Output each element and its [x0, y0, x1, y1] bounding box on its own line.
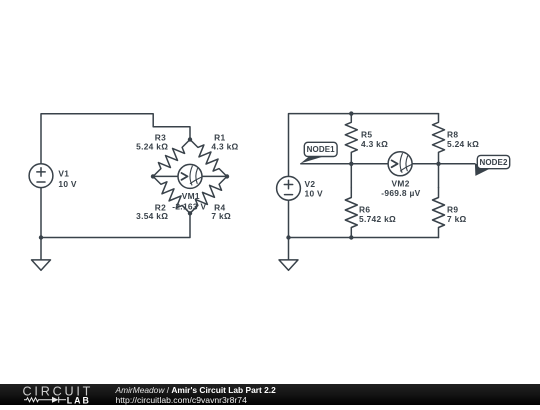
wire R6 upper lead — [350, 164, 352, 188]
resistor R3 — [149, 135, 194, 180]
logo resistor+diode doodle — [24, 397, 66, 403]
junction mid R5/R6 — [349, 162, 353, 166]
wire bottom of bridge to ground node — [41, 213, 190, 237]
wire V1 top to bridge top vertex — [41, 114, 190, 164]
wire VM1 left — [153, 175, 178, 177]
resistor R6 — [345, 188, 357, 238]
voltmeter U VM2 — [388, 152, 412, 176]
junction bottom rail R6 — [349, 235, 353, 239]
footer bar — [0, 384, 540, 405]
svg-text:3.54 kΩ: 3.54 kΩ — [136, 211, 168, 221]
junction bridge top — [188, 137, 192, 141]
svg-text:R6: R6 — [359, 204, 370, 214]
svg-text:4.3 kΩ: 4.3 kΩ — [361, 139, 388, 149]
junction V2 bottom — [286, 235, 290, 239]
svg-text:5.742 kΩ: 5.742 kΩ — [359, 214, 396, 224]
svg-text:-969.8 µV: -969.8 µV — [381, 188, 420, 198]
resistor R9 — [433, 188, 445, 238]
footer url text — [116, 395, 247, 405]
junction top rail R5 — [349, 111, 353, 115]
junction V1 bottom — [39, 235, 43, 239]
junction bridge right — [225, 174, 229, 178]
wire VM1 right — [202, 175, 227, 177]
svg-text:R5: R5 — [361, 129, 372, 139]
svg-text:VM2: VM2 — [392, 178, 410, 188]
labels — [58, 129, 508, 224]
svg-text:LAB: LAB — [67, 395, 91, 405]
junction bridge left — [151, 174, 155, 178]
svg-text:NODE2: NODE2 — [479, 158, 508, 167]
wire V2 top to top rail — [289, 114, 439, 177]
node NODE1 flag — [301, 142, 338, 163]
wire R9 upper lead — [438, 164, 440, 188]
voltage source V1 — [29, 164, 53, 188]
svg-text:7 kΩ: 7 kΩ — [211, 211, 231, 221]
resistor R4 — [186, 172, 232, 217]
resistor R2 — [149, 172, 195, 217]
junction mid R8/R9 — [436, 162, 440, 166]
svg-text:5.24 kΩ: 5.24 kΩ — [447, 139, 479, 149]
resistor R5 — [345, 114, 357, 164]
svg-text:NODE1: NODE1 — [307, 145, 336, 154]
svg-text:-2.163 V: -2.163 V — [172, 201, 206, 211]
wire bottom rail — [289, 237, 439, 239]
CircuitLab logo — [0, 384, 110, 405]
ground (left circuit) — [32, 238, 51, 271]
voltage source V2 — [277, 176, 301, 200]
wire VM2 right to node2 — [412, 163, 475, 165]
svg-text:4.3 kΩ: 4.3 kΩ — [211, 142, 238, 152]
svg-text:10 V: 10 V — [305, 188, 324, 198]
svg-text:5.24 kΩ: 5.24 kΩ — [136, 142, 168, 152]
svg-text:V1: V1 — [58, 168, 69, 178]
resistor R1 — [186, 135, 231, 180]
footer title text — [116, 385, 276, 395]
junction bridge bottom — [188, 211, 192, 215]
svg-text:7 kΩ: 7 kΩ — [447, 214, 467, 224]
svg-text:R8: R8 — [447, 129, 458, 139]
svg-text:VM1: VM1 — [182, 191, 200, 201]
wire V1 bottom down to ground node — [40, 188, 42, 238]
voltmeter U VM1 — [178, 164, 202, 188]
node NODE2 flag — [475, 155, 510, 176]
resistor R8 — [433, 114, 445, 164]
wire node1 to VM2 left — [301, 163, 388, 165]
svg-text:10 V: 10 V — [58, 179, 77, 189]
wire V2 bottom to bottom rail — [288, 200, 290, 237]
junction dots — [39, 111, 441, 239]
svg-text:R9: R9 — [447, 204, 458, 214]
ground (right circuit) — [279, 238, 298, 271]
